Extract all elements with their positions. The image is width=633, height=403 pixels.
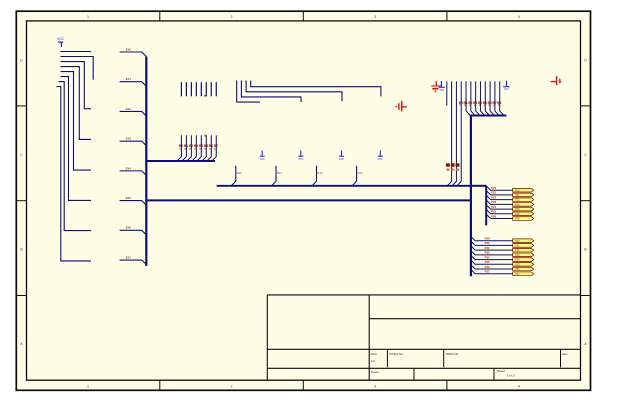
svg-text:P33: P33 — [515, 254, 520, 257]
bus group1 vertical — [485, 186, 487, 226]
wire bus branch 2X0 — [120, 52, 147, 57]
title block size row top — [267, 348, 580, 350]
border zone tick — [16, 200, 26, 202]
svg-text:R11: R11 — [277, 171, 282, 175]
svg-text:2X4: 2X4 — [126, 166, 132, 170]
svg-text:2: 2 — [231, 15, 233, 19]
svg-text:P26: P26 — [515, 218, 520, 221]
wire right comb 5 — [471, 81, 475, 115]
wire to port P37 — [471, 269, 513, 273]
wire to port P23 — [486, 200, 513, 204]
svg-text:P32: P32 — [485, 246, 490, 250]
power VCC small left — [439, 81, 445, 92]
wire to port P21 — [486, 191, 513, 195]
svg-text:B6: B6 — [209, 144, 213, 148]
wire right comb 10 — [495, 81, 499, 115]
inner border frame — [27, 21, 581, 380]
wire bus branch 2X6 — [120, 230, 147, 235]
svg-text:P37: P37 — [515, 273, 520, 276]
wire bus branch 2X5 — [120, 201, 147, 206]
wire bus branch 2X7 — [120, 260, 147, 265]
wire to port P31 — [471, 241, 513, 245]
wire L2 — [241, 81, 301, 103]
port P37 — [513, 272, 534, 276]
svg-text:P24: P24 — [491, 205, 496, 209]
port P25 — [513, 212, 534, 216]
svg-text:4: 4 — [518, 385, 520, 389]
wire stub comb — [205, 82, 207, 96]
port P36 — [513, 267, 534, 271]
svg-text:2X2: 2X2 — [126, 107, 132, 111]
svg-text:B2: B2 — [189, 144, 193, 148]
wire right comb long 3 — [457, 81, 461, 185]
title block divider — [368, 295, 370, 380]
border zone tick — [302, 11, 304, 21]
svg-text:P33: P33 — [485, 251, 490, 255]
wire right comb 7 — [480, 81, 484, 115]
port P30 — [513, 239, 534, 243]
svg-text:R12: R12 — [318, 171, 323, 175]
wire right comb 9 — [490, 81, 494, 115]
border zone tick — [16, 105, 26, 107]
svg-text:VCC: VCC — [298, 157, 304, 161]
svg-text:Sheet: Sheet — [497, 369, 505, 373]
svg-text:P30: P30 — [515, 240, 520, 243]
border zone tick — [16, 295, 26, 297]
wire stub comb — [210, 82, 212, 96]
bus B1 vertical — [145, 56, 147, 266]
port P20 — [513, 188, 534, 192]
svg-text:B1: B1 — [464, 101, 468, 105]
port P24 — [513, 207, 534, 211]
wire to port P34 — [471, 255, 513, 259]
bus stub to resistor comb — [146, 160, 215, 162]
svg-text:P35: P35 — [515, 263, 520, 266]
wire comb P16 — [207, 135, 211, 161]
wire bus branch 2X4 — [120, 171, 147, 176]
svg-text:D: D — [20, 58, 23, 62]
svg-text:2X1: 2X1 — [126, 77, 132, 81]
svg-text:P20: P20 — [515, 189, 520, 192]
wire VCC bundle 3 — [61, 62, 92, 109]
svg-text:P23: P23 — [491, 200, 496, 204]
svg-text:B0: B0 — [179, 144, 183, 148]
svg-text:VCC: VCC — [504, 89, 509, 91]
svg-text:VCC: VCC — [57, 37, 65, 41]
wire stub comb — [180, 82, 182, 96]
svg-text:P22: P22 — [515, 199, 520, 202]
wire VCC bundle 1 — [61, 51, 92, 53]
svg-text:R10: R10 — [237, 171, 242, 175]
svg-text:P21: P21 — [491, 191, 496, 195]
svg-text:P34: P34 — [515, 259, 520, 262]
svg-text:1: 1 — [87, 15, 89, 19]
wire comb P13 — [192, 135, 196, 161]
capacitor C2 — [551, 76, 562, 85]
wire right comb 8 — [485, 81, 489, 115]
svg-text:P25: P25 — [491, 210, 496, 214]
svg-text:B2: B2 — [468, 101, 472, 105]
wire VCC bundle 8 — [57, 87, 92, 261]
wire to port P35 — [471, 260, 513, 264]
wire comb P10 — [177, 135, 181, 161]
wire stub comb — [185, 82, 187, 96]
svg-text:Rev: Rev — [562, 352, 568, 356]
wire to port P36 — [471, 265, 513, 269]
svg-text:R13: R13 — [358, 171, 363, 175]
svg-text:B6: B6 — [488, 101, 492, 105]
svg-text:2X6: 2X6 — [126, 226, 132, 230]
svg-text:P36: P36 — [485, 265, 490, 269]
svg-text:B8: B8 — [497, 101, 501, 105]
net label rotated 1 — [446, 163, 450, 166]
title block outline — [267, 294, 580, 296]
net label rotated 2 — [451, 163, 455, 166]
svg-text:VCC: VCC — [439, 90, 444, 92]
wire VCC bundle 6 — [61, 77, 92, 201]
svg-text:2X5: 2X5 — [126, 196, 132, 200]
wire stub R11 — [272, 166, 276, 186]
ground VSS — [339, 151, 345, 162]
wire line B thick — [146, 199, 471, 201]
wire to port P33 — [471, 250, 513, 254]
svg-text:P34: P34 — [485, 255, 490, 259]
port P35 — [513, 263, 534, 267]
svg-text:VCC: VCC — [339, 157, 345, 161]
wire stub R10 — [231, 166, 235, 186]
svg-text:D: D — [584, 58, 587, 62]
bus branch to group1 — [471, 185, 486, 187]
wire comb P14 — [197, 135, 201, 161]
svg-text:B0: B0 — [459, 101, 463, 105]
svg-text:P20: P20 — [491, 186, 496, 190]
wire bus branch 2X1 — [120, 82, 147, 87]
wire stub R13 — [352, 166, 356, 186]
wire stub comb — [200, 82, 202, 96]
svg-text:B7: B7 — [492, 101, 496, 105]
svg-text:VCC: VCC — [259, 157, 265, 161]
wire to port P22 — [486, 195, 513, 199]
svg-text:DWG No.: DWG No. — [446, 352, 459, 356]
wire stub comb — [190, 82, 192, 96]
wire VCC bundle 4 — [61, 67, 92, 140]
svg-text:P36: P36 — [515, 268, 520, 271]
svg-text:P26: P26 — [491, 214, 496, 218]
svg-text:2X3: 2X3 — [126, 137, 132, 141]
power VCC small right — [503, 81, 510, 91]
wire line A — [217, 185, 471, 187]
svg-text:B4: B4 — [199, 144, 203, 148]
svg-text:P37: P37 — [485, 270, 490, 274]
scale row cell lines — [413, 368, 415, 380]
svg-text:Size: Size — [371, 352, 377, 356]
wire L3 — [246, 81, 342, 102]
size row cell lines — [386, 349, 388, 367]
wire bus branch 2X2 — [120, 111, 147, 116]
svg-text:4: 4 — [518, 15, 520, 19]
svg-text:Scale: Scale — [371, 370, 379, 374]
ground VSS — [259, 151, 265, 162]
junction mark comb2 — [205, 135, 206, 137]
wire stub R12 — [312, 166, 316, 186]
wire L1 — [237, 81, 260, 103]
svg-text:B4: B4 — [478, 101, 482, 105]
port P26 — [513, 217, 534, 221]
svg-text:P32: P32 — [515, 249, 520, 252]
svg-text:3: 3 — [374, 15, 376, 19]
wire comb P15 — [202, 135, 206, 161]
svg-text:1 of 2: 1 of 2 — [507, 373, 515, 377]
wire L4 — [251, 81, 381, 97]
title block scale row top — [267, 367, 580, 369]
capacitor C1 — [395, 101, 406, 111]
svg-text:P23: P23 — [515, 203, 520, 206]
svg-text:P31: P31 — [485, 241, 490, 245]
port P34 — [513, 258, 534, 262]
svg-text:2X7: 2X7 — [126, 255, 132, 259]
svg-text:3: 3 — [374, 385, 376, 389]
svg-text:C: C — [584, 153, 587, 157]
junction dot — [204, 95, 206, 97]
port P21 — [513, 193, 534, 197]
port P31 — [513, 244, 534, 248]
bus B2 horizontal top — [470, 115, 506, 117]
svg-text:B1: B1 — [184, 144, 188, 148]
wire right comb long 1 — [447, 81, 451, 185]
power VCC — [57, 37, 65, 47]
svg-text:P21: P21 — [515, 194, 520, 197]
svg-text:C: C — [20, 153, 23, 157]
ground red — [431, 81, 441, 92]
svg-text:P35: P35 — [485, 260, 490, 264]
svg-text:2X0: 2X0 — [126, 47, 132, 51]
port P23 — [513, 203, 534, 207]
svg-text:B5: B5 — [483, 101, 487, 105]
wire bus branch 2X3 — [120, 141, 147, 146]
svg-text:FCSM No.: FCSM No. — [389, 352, 404, 356]
wire right comb stub 0 — [446, 81, 448, 105]
ground VSS — [378, 151, 384, 162]
svg-text:B3: B3 — [473, 101, 477, 105]
wire VCC bundle 7 — [59, 82, 92, 231]
wire to port P26 — [486, 214, 513, 218]
bus B2 vertical — [470, 115, 472, 277]
wire to port P32 — [471, 246, 513, 250]
svg-text:B5: B5 — [204, 144, 208, 148]
wire comb P12 — [187, 135, 191, 161]
wire to port P24 — [486, 205, 513, 209]
wire VCC bundle 2 — [61, 57, 94, 80]
wire right comb 11 — [500, 81, 504, 115]
svg-text:P31: P31 — [515, 244, 520, 247]
wire stub comb — [215, 82, 217, 96]
wire right comb 6 — [476, 81, 480, 115]
wire to port P30 — [471, 236, 513, 240]
svg-text:2: 2 — [231, 385, 233, 389]
net label rotated 3 — [456, 163, 460, 166]
port P33 — [513, 253, 534, 257]
svg-text:P24: P24 — [515, 208, 520, 211]
svg-text:A4: A4 — [371, 359, 375, 363]
svg-text:P25: P25 — [515, 213, 520, 216]
wire right comb 4 — [466, 81, 470, 115]
port P32 — [513, 248, 534, 252]
port P22 — [513, 198, 534, 202]
svg-text:1: 1 — [87, 385, 89, 389]
title block title band line — [369, 318, 580, 320]
wire comb P17 — [212, 135, 216, 161]
border zone tick — [446, 11, 448, 21]
svg-text:B3: B3 — [194, 144, 198, 148]
svg-text:P30: P30 — [485, 237, 490, 241]
wire to port P25 — [486, 209, 513, 213]
wire comb P11 — [182, 135, 186, 161]
ground VSS — [298, 151, 304, 162]
wire to port P20 — [486, 186, 513, 190]
svg-text:VCC: VCC — [378, 157, 384, 161]
border zone tick — [159, 11, 161, 21]
svg-text:B7: B7 — [214, 144, 218, 148]
wire VCC bundle 5 — [61, 72, 92, 171]
wire stub comb — [195, 82, 197, 96]
wire right comb long 2 — [452, 81, 456, 185]
svg-text:P22: P22 — [491, 195, 496, 199]
